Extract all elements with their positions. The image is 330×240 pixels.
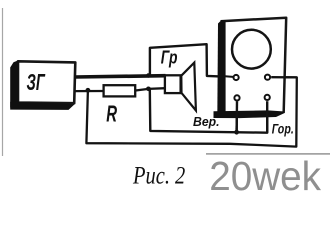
svg-text:Гр: Гр	[161, 47, 178, 68]
svg-text:Вер.: Вер.	[193, 114, 220, 129]
svg-text:ЗГ: ЗГ	[27, 69, 46, 95]
svg-text:R: R	[106, 100, 117, 126]
svg-text:20wek: 20wek	[209, 153, 321, 198]
svg-text:Рис. 2: Рис. 2	[132, 160, 185, 189]
svg-text:Гор.: Гор.	[272, 122, 294, 137]
